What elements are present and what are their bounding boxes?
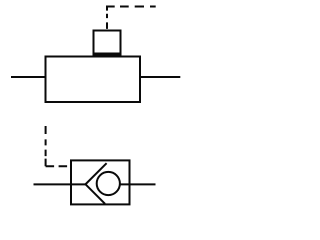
check valve V1 body bbox=[71, 160, 130, 204]
wire left port of V1 bbox=[34, 183, 86, 185]
wire right port of V1 bbox=[120, 183, 156, 185]
valve body U1 (pilot-operated valve block) bbox=[46, 57, 141, 103]
check valve seat (V) bbox=[86, 163, 107, 204]
pilot actuator cap on U1 bbox=[94, 31, 121, 57]
pilot line (dashed horizontal) into check valve V1 bbox=[46, 165, 71, 167]
wire left port of U1 bbox=[11, 76, 46, 78]
check valve ball bbox=[97, 172, 120, 195]
wire right port of U1 bbox=[140, 76, 180, 78]
pilot line (dashed vertical) down to check valve bbox=[45, 126, 47, 166]
actuator cap seat (thick base line) bbox=[93, 53, 122, 58]
pilot line (dashed vertical) from actuator cap up bbox=[106, 6, 108, 29]
pilot line (dashed horizontal) to upper right bbox=[106, 6, 155, 8]
